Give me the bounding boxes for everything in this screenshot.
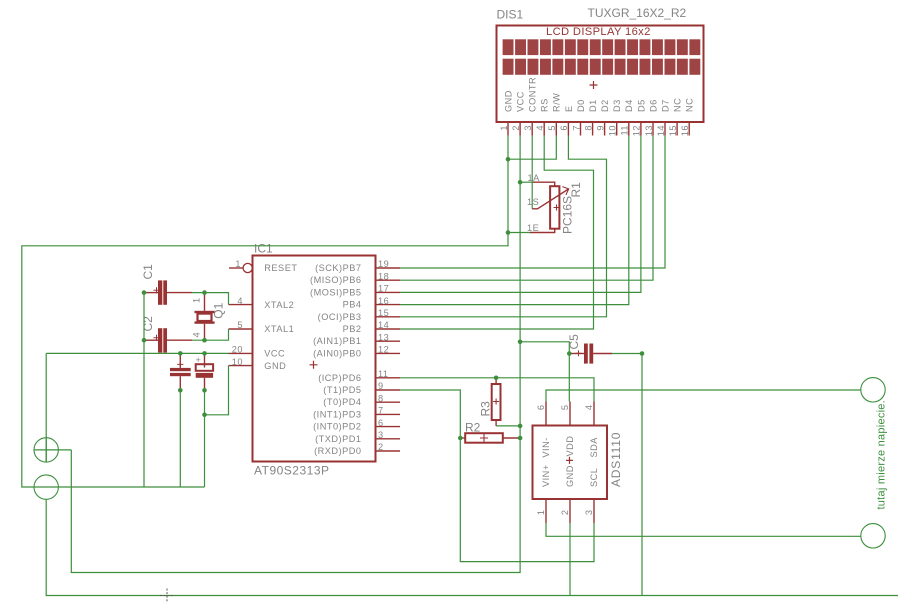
svg-text:ADS1110: ADS1110: [609, 432, 623, 487]
wire C1-C2 left to GND line: [143, 293, 145, 487]
connector pad P2 GND: [34, 475, 58, 499]
wire D6 LCD pin13 to IC pin18: [400, 136, 653, 281]
wire CONTR LCD pin3 down to pot wiper: [531, 136, 533, 209]
R1 wiper arrow from pin S: [532, 189, 569, 209]
svg-text:19: 19: [378, 259, 389, 269]
svg-text:D6: D6: [648, 99, 658, 112]
LCD module DIS1 TUXGR_16X2_R2: [497, 26, 704, 123]
IC1 origin cross: [310, 361, 318, 369]
wire GND: pad P2 down to bottom rail, rail to right edge: [46, 499, 898, 595]
svg-text:SDA: SDA: [589, 437, 599, 458]
svg-text:16: 16: [378, 296, 389, 306]
svg-text:5: 5: [237, 320, 243, 330]
wire E LCD pin6 to IC pin15: [400, 136, 607, 317]
svg-text:RS: RS: [540, 98, 550, 112]
svg-text:NC: NC: [685, 98, 695, 112]
wire R/W LCD pin5 to GND node: [508, 136, 556, 160]
svg-text:XTAL2: XTAL2: [264, 300, 294, 310]
svg-text:SCL: SCL: [589, 468, 599, 487]
capacitor C3: [170, 353, 191, 487]
svg-text:DIS1: DIS1: [497, 8, 524, 22]
svg-text:12: 12: [378, 345, 389, 355]
svg-text:VDD: VDD: [565, 436, 575, 457]
svg-text:(ICP)PD6: (ICP)PD6: [318, 373, 361, 383]
wire C5 right down to bottom rail: [641, 354, 643, 596]
svg-text:7: 7: [378, 406, 384, 416]
svg-text:R2: R2: [465, 421, 481, 435]
R1 pin E: [508, 232, 530, 234]
capacitor C1: [141, 264, 229, 305]
svg-text:C2: C2: [141, 316, 155, 332]
wire GND: LCD pin1 down, across top-left, down left side, to caps: [22, 136, 508, 488]
svg-text:18: 18: [378, 271, 389, 281]
svg-text:(AIN0)PB0: (AIN0)PB0: [313, 348, 361, 358]
svg-text:(T0)PD4: (T0)PD4: [323, 397, 361, 407]
svg-text:R3: R3: [479, 401, 493, 417]
svg-text:17: 17: [378, 284, 389, 294]
svg-text:(TXD)PD1: (TXD)PD1: [315, 434, 361, 444]
sheet origin dashed cross: [160, 589, 174, 603]
svg-text:(INT1)PD3: (INT1)PD3: [313, 409, 361, 419]
svg-text:3: 3: [378, 430, 384, 440]
svg-text:1: 1: [536, 510, 546, 516]
svg-text:(RXD)PD0: (RXD)PD0: [314, 446, 361, 456]
crystal Q1: [192, 293, 226, 341]
svg-text:R1: R1: [569, 182, 583, 198]
svg-text:D1: D1: [588, 99, 598, 112]
svg-text:R/W: R/W: [552, 93, 562, 112]
svg-text:(T1)PD5: (T1)PD5: [323, 385, 361, 395]
svg-text:PC16S: PC16S: [561, 196, 575, 234]
svg-text:1: 1: [192, 297, 202, 303]
svg-text:LCD DISPLAY 16x2: LCD DISPLAY 16x2: [546, 26, 651, 38]
svg-text:tutaj mierze napiecie.: tutaj mierze napiecie.: [876, 400, 888, 509]
wire VCC branch to ADS pin5 VDD: [520, 342, 569, 402]
svg-text:RESET: RESET: [264, 263, 297, 273]
svg-text:5: 5: [560, 405, 570, 411]
wire SDA net: IC pin11 to ADS pin4: [400, 378, 594, 402]
R1 pin A: [521, 181, 533, 183]
svg-text:GND: GND: [565, 465, 575, 487]
svg-text:(AIN1)PB1: (AIN1)PB1: [313, 336, 361, 346]
svg-text:(MISO)PB6: (MISO)PB6: [310, 275, 361, 285]
svg-text:D2: D2: [600, 99, 610, 112]
svg-text:6: 6: [536, 405, 546, 411]
svg-text:(SCK)PB7: (SCK)PB7: [315, 263, 361, 273]
wire D7 LCD pin14 to IC pin19: [400, 136, 665, 269]
microcontroller IC1 body: [253, 256, 376, 462]
svg-text:6: 6: [378, 418, 384, 428]
svg-text:PB2: PB2: [343, 324, 362, 334]
IC1 right pins PB7..PB0, PD6..PD0: [310, 259, 400, 456]
IC1 left pins: RESET 1, XTAL2 4, XTAL1 5, VCC 20, GND 10: [229, 259, 253, 367]
ADS1110 top pin stubs 6 5 4: [536, 402, 594, 426]
wire ADS pin2 to bottom rail: [569, 523, 571, 596]
svg-text:(OCI)PB3: (OCI)PB3: [318, 312, 362, 322]
svg-text:VIN+: VIN+: [541, 464, 551, 487]
svg-text:6: 6: [559, 125, 569, 131]
wire VIN+ ADS pin1 to pad P4: [546, 523, 861, 536]
LCD pin stubs and pin numbers 1-16: [499, 122, 690, 136]
LCD pin name labels: [503, 77, 694, 112]
svg-text:8: 8: [583, 125, 593, 131]
svg-text:1A: 1A: [528, 173, 541, 183]
svg-text:3: 3: [523, 125, 533, 131]
svg-text:14: 14: [656, 125, 666, 136]
svg-text:9: 9: [595, 125, 605, 131]
svg-text:14: 14: [378, 320, 389, 330]
svg-text:1E: 1E: [527, 223, 539, 233]
svg-text:3: 3: [584, 510, 594, 516]
wire SCL net: IC pin9 down through R2 to ADS pin3: [400, 390, 594, 562]
capacitor C5: [567, 334, 642, 364]
svg-text:2: 2: [560, 510, 570, 516]
svg-text:2: 2: [378, 442, 384, 452]
svg-text:13: 13: [644, 125, 654, 136]
svg-text:D4: D4: [624, 99, 634, 112]
resistor R3: [479, 378, 521, 426]
svg-text:15: 15: [378, 308, 389, 318]
svg-text:9: 9: [378, 381, 384, 391]
connector pad P3 measure+: [861, 378, 885, 402]
svg-text:E: E: [564, 105, 574, 112]
wire VCC: LCD pin2 down to bottom rail, left and up to pad P1: [71, 136, 520, 573]
svg-text:CONTR: CONTR: [528, 77, 538, 112]
svg-text:D3: D3: [612, 99, 622, 112]
svg-text:1: 1: [499, 125, 509, 131]
svg-text:GND: GND: [503, 90, 513, 112]
svg-text:(INT0)PD2: (INT0)PD2: [313, 422, 361, 432]
svg-text:AT90S2313P: AT90S2313P: [254, 464, 330, 478]
wire VIN- ADS pin6 to pad P3: [546, 390, 861, 402]
svg-text:1: 1: [235, 259, 241, 269]
svg-text:D7: D7: [660, 99, 670, 112]
svg-text:13: 13: [378, 332, 389, 342]
connector pad P4 measure-: [861, 524, 885, 548]
svg-text:IC1: IC1: [254, 242, 273, 256]
svg-text:C1: C1: [141, 264, 155, 280]
svg-text:TUXGR_16X2_R2: TUXGR_16X2_R2: [588, 6, 687, 20]
ADC U ADS1110 body: [533, 426, 608, 500]
svg-text:15: 15: [668, 125, 678, 136]
svg-text:XTAL1: XTAL1: [264, 324, 294, 334]
svg-text:4: 4: [192, 332, 202, 338]
svg-text:16: 16: [680, 125, 690, 136]
svg-text:4: 4: [584, 405, 594, 411]
connector pad P1 VCC: [34, 438, 58, 462]
wire VCC to IC pin 20 with branch to pad P1: [46, 353, 228, 462]
svg-text:10: 10: [232, 357, 243, 367]
IC1 left pin names: [264, 263, 297, 371]
svg-text:4: 4: [535, 125, 545, 131]
ADS1110 bottom pin stubs 1 2 3: [536, 499, 594, 523]
svg-text:12: 12: [632, 125, 642, 136]
svg-text:C5: C5: [567, 334, 581, 350]
svg-text:4: 4: [237, 296, 243, 306]
svg-text:10: 10: [608, 125, 618, 136]
capacitor C4 electrolytic: [196, 353, 229, 487]
capacitor C2: [141, 316, 229, 353]
svg-text:NC: NC: [673, 98, 683, 112]
svg-text:PB4: PB4: [343, 300, 362, 310]
resistor R2: [460, 421, 520, 443]
svg-text:Q1: Q1: [212, 302, 226, 318]
svg-text:(MOSI)PB5: (MOSI)PB5: [310, 287, 361, 297]
R1 origin cross: [554, 205, 560, 211]
svg-text:VIN-: VIN-: [541, 437, 551, 457]
wire D4 LCD pin11 to IC pin16: [400, 136, 629, 305]
svg-text:11: 11: [378, 369, 389, 379]
svg-text:VCC: VCC: [264, 349, 285, 359]
svg-text:GND: GND: [264, 361, 286, 371]
svg-text:7: 7: [571, 125, 581, 131]
svg-text:11: 11: [620, 125, 630, 136]
wire D5 LCD pin12 to IC pin17: [400, 136, 641, 293]
potentiometer R1 PC16S body: [550, 186, 559, 229]
svg-text:D0: D0: [576, 99, 586, 112]
svg-text:1S: 1S: [527, 197, 539, 207]
svg-text:VCC: VCC: [516, 91, 526, 112]
svg-text:8: 8: [378, 393, 384, 403]
wire RS LCD pin4 to IC pin14: [400, 136, 594, 330]
svg-text:D5: D5: [636, 99, 646, 112]
svg-text:2: 2: [511, 125, 521, 131]
svg-text:20: 20: [232, 345, 243, 355]
svg-text:5: 5: [547, 125, 557, 131]
ADS1110 pin names: [541, 436, 599, 487]
